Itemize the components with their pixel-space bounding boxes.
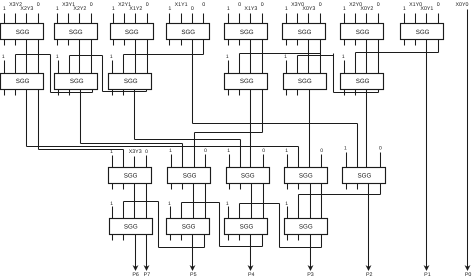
svg-text:0: 0	[191, 6, 194, 12]
svg-text:SGG: SGG	[356, 78, 370, 85]
svg-text:X0Y3: X0Y3	[302, 6, 315, 12]
svg-text:1: 1	[56, 54, 59, 60]
svg-text:SGG: SGG	[298, 29, 312, 36]
svg-text:1: 1	[285, 148, 288, 154]
svg-text:SGG: SGG	[70, 78, 84, 85]
svg-text:1: 1	[226, 54, 229, 60]
svg-text:1: 1	[2, 54, 5, 60]
svg-text:SGG: SGG	[240, 29, 254, 36]
svg-text:1: 1	[403, 6, 406, 12]
svg-text:1: 1	[56, 6, 59, 12]
svg-text:1: 1	[343, 6, 346, 12]
svg-text:SGG: SGG	[16, 29, 30, 36]
svg-text:1: 1	[110, 201, 113, 207]
svg-text:X1Y2: X1Y2	[129, 6, 142, 12]
svg-text:1: 1	[227, 6, 230, 12]
svg-text:1: 1	[227, 148, 230, 154]
svg-text:SGG: SGG	[69, 29, 83, 36]
svg-text:SGG: SGG	[125, 29, 139, 36]
svg-text:SGG: SGG	[124, 224, 138, 231]
svg-text:1: 1	[284, 54, 287, 60]
svg-text:1: 1	[110, 54, 113, 60]
svg-text:X2Y3: X2Y3	[20, 6, 33, 12]
svg-text:0: 0	[437, 2, 440, 8]
svg-text:0: 0	[145, 149, 148, 155]
svg-text:SGG: SGG	[299, 224, 313, 231]
svg-text:0: 0	[377, 2, 380, 8]
svg-text:P7: P7	[144, 272, 151, 278]
svg-text:P4: P4	[248, 272, 255, 278]
svg-text:SGG: SGG	[16, 78, 30, 85]
svg-text:0: 0	[262, 148, 265, 154]
svg-text:0: 0	[146, 2, 149, 8]
svg-text:SGG: SGG	[181, 29, 195, 36]
svg-text:SGG: SGG	[124, 78, 138, 85]
svg-text:P6: P6	[132, 272, 139, 278]
svg-text:SGG: SGG	[182, 224, 196, 231]
svg-text:1: 1	[342, 54, 345, 60]
svg-text:SGG: SGG	[356, 29, 370, 36]
svg-text:0: 0	[261, 2, 264, 8]
svg-text:X0Y1: X0Y1	[420, 6, 433, 12]
svg-text:P3: P3	[307, 272, 314, 278]
svg-text:0: 0	[204, 148, 207, 154]
svg-text:1: 1	[168, 201, 171, 207]
svg-text:1: 1	[285, 6, 288, 12]
svg-text:X1Y3: X1Y3	[244, 6, 257, 12]
svg-text:0: 0	[319, 2, 322, 8]
svg-text:X0Y2: X0Y2	[360, 6, 373, 12]
svg-text:P0: P0	[465, 272, 472, 278]
svg-text:1: 1	[226, 201, 229, 207]
svg-text:SGG: SGG	[183, 173, 197, 180]
svg-text:SGG: SGG	[298, 78, 312, 85]
svg-text:0: 0	[238, 2, 241, 8]
svg-text:0: 0	[379, 146, 382, 152]
svg-text:1: 1	[285, 201, 288, 207]
svg-text:X0Y0: X0Y0	[456, 2, 469, 8]
svg-text:1: 1	[169, 148, 172, 154]
svg-text:SGG: SGG	[358, 173, 372, 180]
svg-text:SGG: SGG	[240, 224, 254, 231]
svg-text:P2: P2	[366, 272, 373, 278]
svg-text:X3Y3: X3Y3	[129, 149, 142, 155]
svg-text:X1Y1: X1Y1	[175, 2, 188, 8]
svg-text:P1: P1	[424, 272, 431, 278]
svg-text:0: 0	[90, 2, 93, 8]
svg-text:0: 0	[320, 148, 323, 154]
svg-text:SGG: SGG	[299, 173, 313, 180]
svg-text:1: 1	[344, 146, 347, 152]
svg-text:X2Y2: X2Y2	[73, 6, 86, 12]
svg-text:SGG: SGG	[124, 173, 138, 180]
svg-text:P5: P5	[190, 272, 197, 278]
svg-text:SGG: SGG	[416, 29, 430, 36]
svg-text:0: 0	[37, 2, 40, 8]
svg-text:1: 1	[3, 6, 6, 12]
svg-text:1: 1	[112, 6, 115, 12]
svg-text:0: 0	[202, 2, 205, 8]
svg-text:SGG: SGG	[240, 78, 254, 85]
svg-text:SGG: SGG	[241, 173, 255, 180]
svg-text:1: 1	[110, 149, 113, 155]
svg-text:1: 1	[168, 6, 171, 12]
